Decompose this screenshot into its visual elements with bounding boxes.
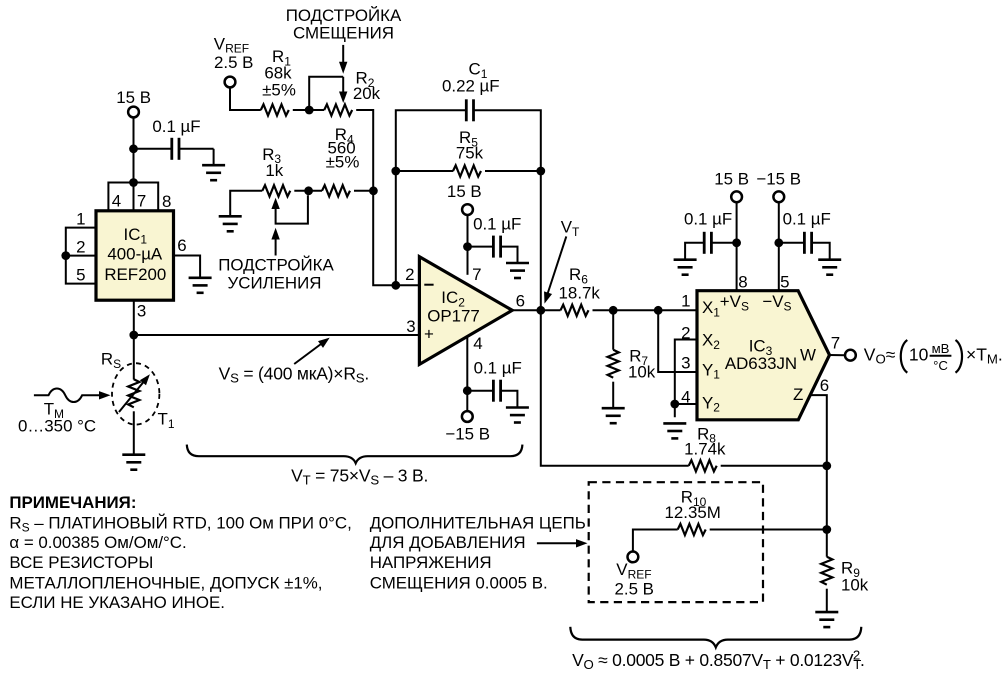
dashed box optional offset circuit <box>589 482 763 602</box>
svg-text:0.1 µF: 0.1 µF <box>473 215 521 234</box>
svg-text:8: 8 <box>738 272 747 291</box>
capacitor 0.1 uF (IC2 -supply bypass) <box>467 358 522 407</box>
wire 15V to IC1 pin 7 <box>133 117 135 210</box>
svg-text:6: 6 <box>516 291 525 310</box>
svg-text:×TM.: ×TM. <box>966 345 1003 367</box>
svg-text:20k: 20k <box>353 84 381 103</box>
label output formula VO = (10 mV/C) x TM <box>864 340 1003 373</box>
wire VT node to R8 <box>541 310 689 466</box>
svg-text:VO≈: VO≈ <box>864 345 896 367</box>
svg-text:15 В: 15 В <box>116 88 151 107</box>
notes text block <box>9 493 351 612</box>
svg-text:−15 В: −15 В <box>445 425 490 444</box>
svg-text:400-µA: 400-µA <box>107 245 163 264</box>
svg-text:МЕТАЛЛОПЛЕНОЧНЫЕ, ДОПУСК ±1%,: МЕТАЛЛОПЛЕНОЧНЫЕ, ДОПУСК ±1%, <box>9 573 322 592</box>
15 V supply terminal for IC1 <box>116 88 151 117</box>
wire feedback right vertical <box>540 171 542 310</box>
svg-text:15 В: 15 В <box>714 169 749 188</box>
svg-text:4: 4 <box>681 388 690 407</box>
node 15V/cap junction <box>129 144 138 153</box>
svg-text:7: 7 <box>831 334 840 353</box>
wire RS node to IC2 non-inverting input <box>134 334 420 336</box>
wire IC2 output <box>512 309 560 311</box>
svg-text:2: 2 <box>681 324 690 343</box>
wire R3 left to ground <box>230 191 262 216</box>
brace VT = 75xVS - 3 V <box>187 445 523 488</box>
wire R6 to IC3 X1 <box>593 309 698 311</box>
svg-text:2: 2 <box>405 265 414 284</box>
svg-text:5: 5 <box>76 266 85 285</box>
svg-text:ПРИМЕЧАНИЯ:: ПРИМЕЧАНИЯ: <box>9 493 136 512</box>
node R8/Z junction <box>822 461 831 470</box>
svg-text:RS: RS <box>101 350 121 371</box>
15 V supply terminal for IC2 pin 7 <box>447 182 482 275</box>
ground (R7) <box>602 408 625 423</box>
label: offset adjustment with arrow <box>286 6 402 74</box>
multiplier IC3 AD633JN <box>681 272 829 419</box>
potentiometer R2 20k <box>309 69 380 116</box>
svg-text:−15 В: −15 В <box>756 169 801 188</box>
svg-text:ДОПОЛНИТЕЛЬНАЯ ЦЕПЬ: ДОПОЛНИТЕЛЬНАЯ ЦЕПЬ <box>370 513 586 532</box>
ground (IC1 bypass cap) <box>202 165 225 180</box>
capacitor 0.1 uF (IC1 bypass) <box>134 117 214 165</box>
svg-text:RS – ПЛАТИНОВЫЙ RTD, 100 Ом ПР: RS – ПЛАТИНОВЫЙ RTD, 100 Ом ПРИ 0°C, <box>9 513 351 534</box>
svg-text:УСИЛЕНИЯ: УСИЛЕНИЯ <box>228 274 322 293</box>
svg-text:0.22 µF: 0.22 µF <box>442 77 500 96</box>
svg-text:Z: Z <box>793 385 803 404</box>
wire Z pin down <box>810 395 827 557</box>
node Y1 tap junction <box>654 306 663 315</box>
wire VREF to R1 <box>230 87 261 110</box>
wire R8 to Z line <box>721 465 827 467</box>
-15 V supply terminal for IC3 pin 5 <box>756 169 801 290</box>
label: gain adjustment with arrow <box>218 228 334 293</box>
node IC2 pin7 bypass junction <box>463 242 472 251</box>
node R10/Z junction <box>822 525 831 534</box>
IC1 400-uA REF200 <box>96 211 174 300</box>
node R5 right junction <box>536 167 545 176</box>
15 V supply terminal for IC3 pin 8 <box>714 169 749 290</box>
-15 V supply terminal for IC2 pin 4 <box>445 336 490 444</box>
svg-text:0.1 µF: 0.1 µF <box>684 210 732 229</box>
svg-text:0.1 µF: 0.1 µF <box>474 358 522 377</box>
wire X2 to Y2 to ground <box>675 340 697 418</box>
svg-text:0…350 °C: 0…350 °C <box>18 417 96 436</box>
resistor R7 10k <box>608 310 656 408</box>
node IC1 left pins junction <box>61 251 70 260</box>
IC1 pin 6 to ground <box>174 236 201 278</box>
svg-text:2.5 В: 2.5 В <box>615 580 654 599</box>
node IC3 +Vs bypass junction <box>732 238 741 247</box>
potentiometer R3 1k <box>262 145 308 224</box>
ground (IC3 + bypass) <box>674 260 697 275</box>
label optional circuit description <box>370 513 586 592</box>
resistor R5 75k feedback <box>396 128 541 177</box>
svg-text:VO ≈ 0.0005 В + 0.8507VT + 0.0: VO ≈ 0.0005 В + 0.8507VT + 0.0123VT2. <box>572 647 865 672</box>
svg-text:10k: 10k <box>841 576 869 595</box>
svg-text:AD633JN: AD633JN <box>725 354 797 373</box>
svg-text:10: 10 <box>909 345 929 365</box>
ground (R3 left) <box>219 216 242 231</box>
svg-text:18.7k: 18.7k <box>559 284 601 303</box>
wire R4 to vertical <box>354 190 374 192</box>
svg-text:W: W <box>800 346 816 365</box>
ground (IC3 - bypass) <box>818 260 841 275</box>
svg-text:REF200: REF200 <box>104 265 166 284</box>
svg-text:5: 5 <box>780 272 789 291</box>
node R1/R2 junction <box>305 106 314 115</box>
svg-text:°C: °C <box>933 358 948 373</box>
svg-text:VT = 75×VS – 3 В.: VT = 75×VS – 3 В. <box>291 466 428 488</box>
svg-text:1: 1 <box>76 210 85 229</box>
capacitor 0.1 uF (IC3 +supply bypass) <box>684 210 737 260</box>
label VS formula with arrow <box>219 338 369 386</box>
sensor RS platinum RTD with T1 <box>101 350 175 431</box>
capacitor 0.1 uF (IC3 -supply bypass) <box>779 210 831 260</box>
svg-text:VT: VT <box>561 218 580 239</box>
IC1 left pins 1,2,5 bracket <box>66 210 96 285</box>
capacitor C1 0.22 uF feedback <box>396 60 541 286</box>
svg-text:2.5 В: 2.5 В <box>214 53 253 72</box>
node R3/R4 junction <box>304 186 313 195</box>
svg-text:±5%: ±5% <box>262 80 296 99</box>
svg-text:OP177: OP177 <box>427 307 480 326</box>
ground (IC2 + bypass) <box>506 263 529 278</box>
svg-text:4: 4 <box>112 192 121 211</box>
svg-text:ПОДСТРОЙКА: ПОДСТРОЙКА <box>218 256 334 275</box>
resistor R9 10k <box>821 557 869 612</box>
IC1 top pins 4,7,8 <box>108 183 171 212</box>
svg-text:3: 3 <box>406 317 415 336</box>
svg-text:2: 2 <box>76 238 85 257</box>
ground (R9) <box>815 612 838 627</box>
svg-text:8: 8 <box>162 192 171 211</box>
resistor R1 68k ±5% <box>261 47 296 116</box>
wire RS to ground <box>133 411 135 454</box>
svg-text:1k: 1k <box>265 161 283 180</box>
label TM temperature input arrow <box>18 389 111 436</box>
svg-text:ЕСЛИ НЕ УКАЗАНО ИНОЕ.: ЕСЛИ НЕ УКАЗАНО ИНОЕ. <box>9 593 225 612</box>
node IC2 pin4 bypass junction <box>463 386 472 395</box>
svg-text:ДЛЯ ДОБАВЛЕНИЯ: ДЛЯ ДОБАВЛЕНИЯ <box>370 533 526 552</box>
ground (IC1 pin 6) <box>189 278 212 293</box>
op-amp IC2 OP177 <box>405 257 525 365</box>
svg-text:75k: 75k <box>456 144 484 163</box>
resistor R8 1.74k <box>684 424 726 471</box>
resistor R4 560 ±5% <box>322 125 359 196</box>
svg-text:4: 4 <box>473 334 482 353</box>
svg-text:±5%: ±5% <box>326 152 360 171</box>
svg-text:ПОДСТРОЙКА: ПОДСТРОЙКА <box>286 6 402 25</box>
wire R1 to R2 <box>293 109 324 111</box>
node X2/Y2 junction <box>670 400 679 409</box>
svg-text:+: + <box>424 324 434 343</box>
svg-text:СМЕЩЕНИЯ: СМЕЩЕНИЯ <box>293 23 394 42</box>
capacitor 0.1 uF (IC2 +supply bypass) <box>468 215 522 263</box>
node R5 left junction <box>391 167 400 176</box>
wire Y1 connection <box>658 310 697 372</box>
svg-text:3: 3 <box>681 353 690 372</box>
svg-text:7: 7 <box>137 192 146 211</box>
svg-text:10k: 10k <box>628 363 656 382</box>
resistor R6 18.7k <box>559 265 601 316</box>
VREF 2.5V terminal (offset circuit) <box>615 552 654 599</box>
node IC2 inverting input junction <box>391 281 400 290</box>
node pin7 supply junction <box>129 178 138 187</box>
node R7 tap junction <box>609 306 618 315</box>
IC3 W output pin 7 terminal <box>830 334 856 361</box>
wire R2 to IC2 inverting input <box>356 110 419 285</box>
svg-text:мВ: мВ <box>932 341 950 356</box>
VREF 2.5V terminal (top) <box>214 34 254 87</box>
resistor R10 12.35M <box>633 488 827 552</box>
svg-text:НАПРЯЖЕНИЯ: НАПРЯЖЕНИЯ <box>370 553 492 572</box>
svg-text:0.1 µF: 0.1 µF <box>152 117 200 136</box>
node VT output junction <box>536 306 545 315</box>
brace VO = 0.0005 + 0.8507VT + 0.0123VT^2 <box>570 627 864 672</box>
svg-text:ВСЕ РЕЗИСТОРЫ: ВСЕ РЕЗИСТОРЫ <box>9 553 153 572</box>
svg-text:3: 3 <box>137 301 146 320</box>
IC1 pin 3 wire <box>134 300 147 379</box>
svg-text:1: 1 <box>681 292 690 311</box>
label VT with arrow <box>544 218 580 304</box>
node pin3 / RS / op-amp input junction <box>129 331 138 340</box>
svg-text:1.74k: 1.74k <box>684 440 726 459</box>
svg-text:α = 0.00385 Ом/Ом/°C.: α = 0.00385 Ом/Ом/°C. <box>9 533 186 552</box>
ground (IC2 - bypass) <box>506 408 529 423</box>
node IC3 -Vs bypass junction <box>774 238 783 247</box>
svg-text:15 В: 15 В <box>447 182 482 201</box>
svg-text:VS = (400 мкА)×RS.: VS = (400 мкА)×RS. <box>219 364 369 386</box>
label arrow to offset circuit <box>537 539 588 547</box>
ground (RS) <box>122 455 145 470</box>
svg-text:12.35M: 12.35M <box>665 503 721 522</box>
svg-text:СМЕЩЕНИЯ 0.0005 В.: СМЕЩЕНИЯ 0.0005 В. <box>370 573 548 592</box>
svg-text:6: 6 <box>177 236 186 255</box>
svg-text:6: 6 <box>820 376 829 395</box>
ground (Y2) <box>663 423 686 438</box>
svg-text:0.1 µF: 0.1 µF <box>783 210 831 229</box>
node R4/vertical junction <box>369 186 378 195</box>
svg-text:7: 7 <box>472 265 481 284</box>
wire R3 to R4 <box>294 190 322 192</box>
svg-text:T1: T1 <box>158 410 175 431</box>
